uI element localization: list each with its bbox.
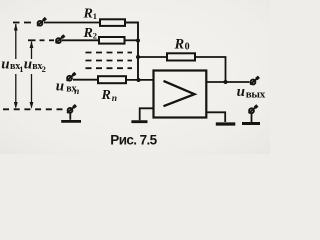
svg-text:0: 0	[185, 42, 190, 53]
svg-text:u: u	[56, 79, 64, 95]
svg-text:R: R	[174, 37, 185, 53]
svg-text:u: u	[24, 56, 32, 72]
svg-text:R: R	[83, 26, 93, 41]
svg-text:вых: вых	[246, 89, 266, 101]
svg-text:R: R	[83, 7, 93, 22]
svg-text:n: n	[74, 86, 79, 96]
svg-text:1: 1	[19, 64, 23, 74]
svg-text:2: 2	[93, 30, 97, 40]
svg-text:R: R	[101, 88, 111, 103]
svg-text:2: 2	[42, 64, 46, 74]
svg-text:u: u	[237, 84, 245, 100]
svg-text:1: 1	[93, 11, 97, 21]
svg-text:n: n	[112, 94, 117, 104]
svg-text:Рис. 7.5: Рис. 7.5	[110, 133, 157, 148]
svg-text:u: u	[1, 56, 9, 72]
